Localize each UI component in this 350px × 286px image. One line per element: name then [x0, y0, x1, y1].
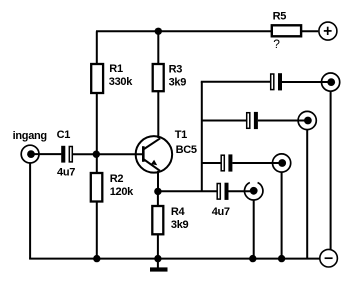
pin input center: [27, 150, 35, 158]
wire R2 top lead: [96, 154, 98, 173]
wire emitter lead down: [157, 171, 159, 192]
capacitor out4 positive plate: [217, 184, 220, 200]
resistor R4: [152, 206, 163, 234]
connector out1 jack: [322, 73, 340, 91]
minus sign: [325, 257, 333, 259]
svg-text:R2: R2: [110, 173, 124, 185]
resistor R5: [272, 25, 301, 36]
wire output bus vertical: [201, 82, 203, 192]
svg-text:330k: 330k: [109, 76, 133, 88]
resistor R3: [153, 64, 164, 91]
wire row2 bus to cap: [202, 120, 246, 122]
wire out4 ground down: [253, 200, 255, 259]
wire R4 bottom lead: [157, 234, 159, 258]
wire R3 top lead: [157, 31, 159, 64]
wire row3 cap to jack: [232, 162, 281, 164]
wire row1 bus to cap: [201, 81, 270, 83]
connector out4 jack partial: [244, 182, 262, 200]
wire R1 top lead: [96, 31, 98, 64]
node emitter junction dot: [154, 188, 161, 195]
transistor Q1 body circle: [136, 136, 173, 173]
transistor emitter stroke: [143, 159, 160, 171]
pin out1 center: [327, 78, 335, 86]
wire out2 ground down: [306, 130, 308, 259]
capacitor out3 positive plate: [221, 155, 224, 171]
svg-text:ingang: ingang: [13, 130, 47, 142]
transistor base bar: [142, 146, 145, 162]
wire row1 cap to jack: [282, 81, 330, 83]
ground bar: [150, 267, 168, 271]
svg-text:R5: R5: [273, 11, 287, 23]
wire out3 ground down: [281, 172, 283, 259]
node R4 bottom junction dot: [154, 255, 161, 262]
wire base node to transistor base: [96, 153, 144, 155]
wire out1 ground down: [330, 91, 332, 250]
wire collector lead up: [157, 91, 159, 138]
wire R5 to plus terminal: [301, 30, 318, 32]
connector input jack: [21, 145, 39, 163]
wire input ground down: [29, 163, 31, 259]
svg-text:120k: 120k: [110, 186, 134, 198]
wire C1 to base node: [73, 153, 96, 155]
pin out2 center: [304, 117, 312, 125]
node top junction dot: [155, 28, 162, 35]
wire input to C1: [31, 153, 61, 155]
svg-text:3k9: 3k9: [169, 76, 187, 88]
wire R1 bottom lead to base node: [96, 93, 98, 154]
plus sign horizontal: [324, 30, 332, 32]
node out4 ground junction dot: [249, 255, 256, 262]
capacitor out2 positive plate: [247, 113, 250, 129]
svg-text:R4: R4: [171, 206, 186, 218]
svg-text:R1: R1: [109, 63, 123, 75]
svg-text:3k9: 3k9: [171, 219, 189, 231]
wire emitter to R4: [157, 191, 159, 206]
pin out4 center: [250, 187, 258, 195]
capacitor out4 negative plate: [225, 183, 229, 200]
svg-text:C1: C1: [57, 129, 71, 141]
wire row3 bus to cap: [202, 162, 221, 164]
wire bottom ground rail: [29, 258, 320, 260]
transistor collector stroke: [143, 138, 160, 149]
wire row4 cap to jack: [229, 190, 254, 192]
capacitor out2 negative plate: [254, 112, 258, 129]
plus sign vertical: [327, 27, 329, 35]
capacitor out1 negative plate: [278, 73, 282, 90]
capacitor out1 positive plate: [271, 74, 274, 90]
transistor emitter arrow: [151, 160, 157, 165]
resistor R1: [91, 64, 103, 93]
svg-text:BC5: BC5: [176, 144, 197, 156]
connector out3 jack: [273, 154, 291, 172]
wire R2 bottom lead: [96, 202, 98, 259]
svg-text:?: ?: [273, 37, 280, 51]
capacitor out3 negative plate: [228, 154, 232, 171]
node R2 bottom junction dot: [93, 255, 100, 262]
connector out2 jack: [298, 111, 316, 129]
pin out3 center: [278, 159, 286, 167]
svg-text:4u7: 4u7: [212, 206, 230, 218]
terminal plus supply: [319, 22, 337, 40]
wire row2 cap to jack: [258, 120, 307, 122]
capacitor C1 negative plate: [61, 146, 65, 163]
node base junction dot: [93, 151, 100, 158]
node out3 ground junction dot: [278, 255, 285, 262]
svg-text:4u7: 4u7: [57, 166, 75, 178]
wire top supply rail: [96, 30, 272, 32]
terminal minus supply: [320, 249, 338, 267]
capacitor C1 positive plate: [69, 147, 72, 162]
resistor R2: [91, 173, 103, 202]
svg-text:T1: T1: [175, 129, 187, 141]
ground stub: [157, 259, 159, 268]
wire row4 emitter to cap: [158, 190, 217, 192]
svg-text:R3: R3: [169, 64, 183, 76]
